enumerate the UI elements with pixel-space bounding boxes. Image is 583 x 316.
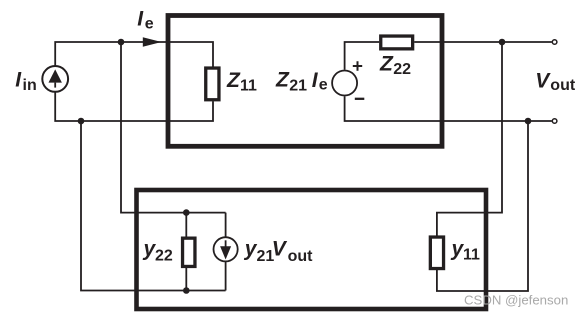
wire: dep. voltage source top to Z22 left xyxy=(345,42,380,70)
current source Iin (circle) xyxy=(42,66,68,92)
junction node y22 bottom xyxy=(183,287,190,294)
label Vout xyxy=(535,70,576,94)
wire: dep. current source top stub xyxy=(225,213,227,238)
label Iin xyxy=(15,69,37,94)
label y22 xyxy=(143,238,173,265)
resistor Z11 xyxy=(206,68,219,100)
label Z11 xyxy=(226,69,257,95)
arrow Ie (current into top box) xyxy=(143,37,162,47)
polarity plus xyxy=(353,61,362,70)
svg-text:V: V xyxy=(535,70,551,93)
svg-text:22: 22 xyxy=(393,61,411,78)
svg-text:V: V xyxy=(272,238,288,261)
svg-text:11: 11 xyxy=(463,247,480,264)
wire: dep. voltage source bottom to output bottom terminal xyxy=(345,96,552,121)
wire: Iin bottom rail to Z11 bottom xyxy=(55,92,213,121)
resistor Z22 xyxy=(381,36,413,49)
junction node on output top rail xyxy=(499,39,506,46)
junction node on bottom-left rail xyxy=(78,118,85,125)
dep. current source arrow (down) xyxy=(225,240,227,248)
resistor y22 xyxy=(183,238,195,266)
wire: dep. current source bottom stub xyxy=(225,261,227,291)
label y11 xyxy=(451,238,481,264)
label y21 Vout xyxy=(244,238,313,265)
dependent current source y21*Vout (circle) xyxy=(214,237,238,261)
svg-text:in: in xyxy=(23,77,37,94)
wire: Iin top to Z11 top xyxy=(55,42,213,67)
wire: y22 top stub xyxy=(185,213,187,237)
wire: output top node down to y11 top xyxy=(437,42,502,236)
svg-text:11: 11 xyxy=(240,77,257,94)
dependent voltage source Z21*Ie (circle) xyxy=(332,71,357,96)
svg-text:Z: Z xyxy=(226,69,241,92)
label Z22 xyxy=(379,52,411,78)
svg-text:CSDN @jefenson: CSDN @jefenson xyxy=(464,293,568,308)
wire: output bottom node down to y11 bottom xyxy=(437,121,528,291)
wire: y22 bottom stub xyxy=(185,268,187,291)
junction node on top-left rail xyxy=(118,39,125,46)
svg-text:22: 22 xyxy=(155,248,173,265)
label Z21 Ie xyxy=(275,69,328,95)
wire: node B drop to bottom box top rail xyxy=(121,42,226,213)
svg-text:Z: Z xyxy=(379,52,394,75)
two-port box U2 (y-parameter network, bottom) xyxy=(137,190,487,309)
svg-text:Z: Z xyxy=(275,69,290,92)
two-port box U1 (Z-parameter network, top) xyxy=(168,16,442,147)
svg-text:out: out xyxy=(288,248,314,265)
junction node on output bottom rail xyxy=(525,118,532,125)
terminal: output top xyxy=(552,40,557,45)
polarity minus xyxy=(355,98,365,100)
junction node y22 top xyxy=(183,209,190,216)
current source Iin arrow (up) xyxy=(49,69,62,82)
label Ie xyxy=(137,7,154,32)
svg-text:e: e xyxy=(145,16,154,33)
svg-text:out: out xyxy=(550,77,576,94)
svg-text:e: e xyxy=(319,77,328,94)
wire: Z22 right to output top terminal xyxy=(414,41,552,43)
resistor y11 xyxy=(430,237,443,268)
terminal: output bottom xyxy=(552,119,557,124)
svg-text:21: 21 xyxy=(289,78,307,95)
wire: node A drop to bottom box bottom rail xyxy=(81,121,226,291)
